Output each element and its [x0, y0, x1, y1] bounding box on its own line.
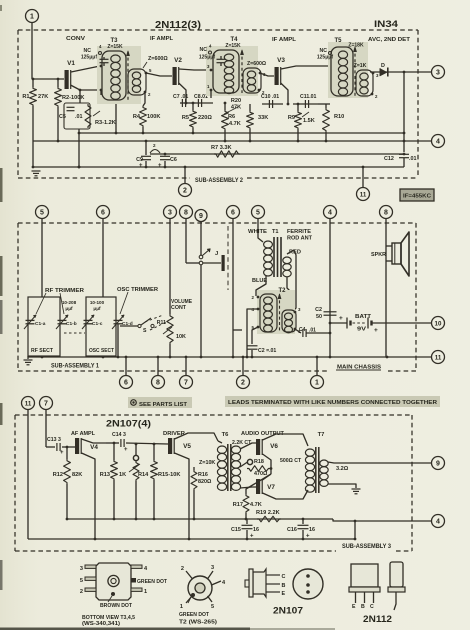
wire base V1: [33, 78, 64, 80]
svg-text:C1-c: C1-c: [92, 321, 103, 327]
svg-text:C2 =.01: C2 =.01: [258, 348, 276, 354]
pin 5 T2: [257, 326, 260, 329]
transformer T3 shading: [97, 46, 141, 104]
wire V3 emitter: [281, 83, 288, 104]
transformer T4 core: [241, 51, 243, 93]
transformer T5 primary: [331, 47, 353, 96]
svg-text:220Ω: 220Ω: [198, 115, 212, 121]
node 6 top: [97, 206, 110, 219]
svg-text:7: 7: [184, 379, 188, 386]
scan edge mark: [0, 5, 2, 11]
svg-text:33K: 33K: [258, 115, 268, 121]
svg-text:Z=15K: Z=15K: [225, 43, 241, 49]
svg-text:NC: NC: [200, 47, 208, 53]
svg-text:2: 2: [80, 589, 83, 595]
wire antenna right bottom: [287, 277, 292, 293]
IF can pin 3: [85, 565, 96, 568]
svg-text:C: C: [370, 604, 374, 610]
bus wire y167: [33, 166, 404, 168]
T2 socket pin 1: [186, 596, 192, 603]
transistor V7: [256, 479, 260, 494]
svg-text:3: 3: [168, 209, 172, 216]
svg-text:4.7K: 4.7K: [250, 502, 262, 508]
node 3 top: [164, 206, 177, 219]
svg-text:BLUE: BLUE: [252, 278, 268, 284]
svg-text:9V: 9V: [357, 327, 367, 333]
svg-text:11: 11: [25, 400, 32, 407]
svg-text:7: 7: [44, 400, 48, 407]
svg-text:Z=10K: Z=10K: [199, 460, 215, 466]
svg-text:11: 11: [435, 354, 442, 361]
svg-text:FERRITE: FERRITE: [287, 229, 312, 235]
IF can pin 1: [131, 588, 142, 591]
pin 1 T4: [210, 89, 213, 92]
svg-text:R20: R20: [231, 98, 241, 104]
node 11 lower terminal: [22, 397, 35, 410]
node 8b top: [380, 206, 393, 219]
svg-text:16: 16: [309, 527, 315, 533]
switch to pot dashed link: [145, 315, 163, 322]
svg-text:μμf: μμf: [93, 306, 101, 311]
svg-text:2: 2: [183, 187, 187, 194]
resistor R17 4.7K: [243, 494, 249, 513]
bus wire y133: [79, 132, 404, 134]
see parts list note: [128, 397, 192, 408]
gang coupling dashed link: [64, 332, 85, 334]
svg-text:T5: T5: [334, 38, 342, 44]
transformer T2 shading: [257, 290, 295, 334]
pin 3 T5 sec: [372, 72, 375, 75]
IF can brown dot: [111, 592, 115, 596]
svg-text:6: 6: [231, 209, 235, 216]
svg-text:4.7K: 4.7K: [229, 121, 241, 127]
svg-text:R2-100K: R2-100K: [62, 95, 84, 101]
IF can pin 2: [85, 588, 96, 591]
wire T6 sec to V7: [240, 487, 256, 488]
svg-text:1: 1: [315, 379, 319, 386]
svg-text:S: S: [143, 328, 147, 334]
svg-text:R19 2.2K: R19 2.2K: [256, 510, 280, 516]
svg-text:2: 2: [241, 379, 245, 386]
svg-text:+: +: [124, 447, 128, 453]
svg-text:5: 5: [80, 578, 83, 584]
sub-assembly 2 dashed enclosure: [18, 29, 418, 31]
pin 2 T4 sec: [258, 89, 261, 92]
pin 4 T2: [257, 308, 260, 311]
svg-text:RF SECT: RF SECT: [31, 348, 54, 354]
svg-text:IF AMPL: IF AMPL: [272, 37, 297, 43]
svg-text:82K: 82K: [72, 472, 82, 478]
svg-text:AVC, 2ND DET: AVC, 2ND DET: [368, 37, 411, 43]
svg-text:2N112(3): 2N112(3): [155, 19, 201, 31]
svg-text:3: 3: [436, 69, 440, 76]
transformer T3 core: [127, 52, 129, 100]
transistor V6: [256, 439, 260, 455]
capacitor C15 16: [246, 519, 248, 524]
resistor R15-10K: [153, 444, 155, 460]
node 4 top: [324, 206, 337, 219]
transformer T5 core: [354, 48, 356, 96]
svg-text:Z=600Ω: Z=600Ω: [247, 61, 266, 67]
ground sub-assembly 2: [32, 141, 34, 167]
pin 2 T3 sec: [144, 91, 147, 94]
svg-text:RF TRIMMER: RF TRIMMER: [45, 288, 84, 294]
svg-text:SPKR: SPKR: [371, 252, 386, 258]
svg-text:Z=1K: Z=1K: [354, 63, 367, 69]
svg-text:R16: R16: [198, 472, 208, 478]
svg-text:R7 3.3K: R7 3.3K: [211, 145, 232, 151]
transformer T2 core: [279, 295, 281, 331]
pin 1 T2: [294, 328, 297, 331]
node 5b top: [252, 206, 265, 219]
svg-text:470Ω: 470Ω: [254, 471, 268, 477]
variable capacitor C1-b: [58, 319, 67, 321]
wire T7 sec bottom: [328, 484, 356, 488]
transformer T2 primary: [260, 294, 277, 332]
svg-text:C5: C5: [59, 114, 66, 120]
switch S: [120, 325, 138, 327]
resistor R10: [325, 104, 327, 108]
node 1 bottom row: [316, 357, 318, 376]
node 4 terminal: [432, 135, 445, 148]
variable capacitor C1-d: [114, 319, 123, 321]
svg-text:J: J: [215, 251, 218, 257]
IF can pin 5: [85, 577, 96, 580]
svg-text:Z=15K: Z=15K: [107, 44, 123, 50]
svg-text:1: 1: [144, 589, 147, 595]
antenna T1 secondary coil: [283, 257, 291, 264]
transformer T2 secondary: [282, 310, 296, 332]
svg-text:1K: 1K: [119, 472, 126, 478]
variable capacitor C1-a: [26, 319, 35, 321]
IF can center hole: [108, 575, 119, 586]
potentiometer R14: [135, 444, 137, 455]
bus wire sub3 mid: [67, 518, 333, 520]
svg-text:2: 2: [153, 143, 156, 148]
svg-text:NC: NC: [320, 48, 328, 54]
svg-text:WHITE: WHITE: [248, 229, 268, 235]
transformer T4 secondary: [243, 68, 261, 93]
T2 socket pin 2: [186, 571, 193, 579]
wire node6b to T2: [233, 329, 242, 331]
svg-text:+: +: [339, 315, 343, 322]
svg-text:R17: R17: [233, 502, 243, 508]
svg-text:μμf: μμf: [65, 306, 73, 311]
svg-text:C2: C2: [315, 307, 322, 313]
svg-text:NC: NC: [84, 48, 92, 54]
transformer T3 primary: [102, 51, 126, 100]
variable capacitor C1-c: [84, 319, 93, 321]
svg-text:D: D: [381, 63, 385, 69]
wire T6 center tap: [240, 462, 248, 467]
ground T7: [352, 488, 361, 490]
capacitor C3 50 electrolytic: [329, 306, 331, 357]
wire T7 sec top to node 9: [328, 462, 432, 463]
resistor R13 1K: [113, 443, 115, 460]
wire to node 4: [333, 519, 432, 521]
svg-text:5: 5: [40, 209, 44, 216]
tuning gang RF section box: [28, 297, 60, 356]
node 1 terminal: [26, 10, 39, 23]
pin 3 T4: [210, 69, 213, 72]
wire V6 emitter: [263, 454, 272, 474]
svg-text:8: 8: [184, 209, 188, 216]
resistor R5 220: [192, 103, 194, 110]
pot circle R18: [247, 459, 252, 464]
svg-text:T2 (WS-265): T2 (WS-265): [179, 620, 217, 626]
svg-text:1: 1: [30, 13, 34, 20]
node 7 bottom row: [185, 357, 187, 376]
svg-text:125μμf: 125μμf: [317, 55, 333, 61]
node 3 terminal: [432, 66, 445, 79]
resistor R16 820: [193, 467, 195, 470]
svg-text:3: 3: [80, 566, 83, 572]
wire T3 pin1 feed down: [115, 90, 117, 133]
svg-text:R14: R14: [138, 472, 149, 478]
scan edge mark: [0, 403, 3, 425]
svg-text:T2: T2: [278, 288, 286, 294]
wire emitters to R17: [246, 474, 271, 494]
antenna T1 core: [273, 237, 275, 277]
svg-text:R13: R13: [100, 472, 110, 478]
svg-text:16: 16: [253, 527, 259, 533]
svg-text:SUB-ASSEMBLY 3: SUB-ASSEMBLY 3: [342, 544, 392, 550]
wire cap row right: [318, 103, 330, 105]
svg-text:.01: .01: [409, 156, 417, 162]
transformer T3 secondary: [128, 69, 146, 95]
capacitor C6 electrolytic: [164, 154, 166, 155]
node 9 top: [195, 210, 207, 222]
svg-text:CONV: CONV: [66, 36, 85, 42]
wire T6 sec to V6: [240, 443, 256, 449]
svg-text:1.5K: 1.5K: [303, 118, 315, 124]
svg-text:2N112: 2N112: [363, 614, 392, 625]
wire V4 collector: [82, 439, 107, 443]
transformer T7: [305, 449, 314, 456]
scan edge mark: [0, 560, 3, 590]
svg-text:Z=600Ω: Z=600Ω: [148, 56, 168, 62]
wire V7 collector: [263, 490, 309, 499]
svg-text:9: 9: [199, 213, 203, 220]
svg-text:AF AMPL: AF AMPL: [71, 431, 96, 437]
svg-text:C13 3: C13 3: [47, 437, 61, 443]
dashed chassis divider at jack: [227, 226, 229, 290]
transistor V5: [168, 438, 172, 454]
2N107 lead B: [266, 583, 280, 585]
svg-text:10: 10: [435, 320, 442, 327]
wire pin4 to bus: [247, 309, 258, 357]
svg-text:5: 5: [256, 209, 260, 216]
svg-text:27K: 27K: [38, 94, 48, 100]
svg-text:C14 3: C14 3: [112, 432, 126, 438]
2N107 side view body: [253, 569, 266, 597]
transformer T6: [217, 446, 226, 453]
svg-text:T1: T1: [272, 229, 279, 235]
svg-text:R4: R4: [133, 114, 141, 120]
svg-text:R10: R10: [334, 114, 344, 120]
svg-text:R11: R11: [157, 320, 166, 326]
wire avc vertical: [403, 71, 406, 74]
node 11 under sub-assembly 2: [362, 167, 364, 188]
svg-text:SUB-ASSEMBLY 1: SUB-ASSEMBLY 1: [51, 364, 100, 370]
bus wire y154: [150, 153, 404, 155]
bus wire sub3 bottom: [28, 538, 355, 540]
T2 socket bottom view: [188, 576, 212, 600]
bus wire main chassis: [28, 356, 387, 358]
svg-text:C1-a: C1-a: [35, 321, 46, 327]
wire R3 to bus: [78, 129, 80, 167]
svg-text:1: 1: [180, 604, 183, 610]
node 7 lower terminal: [40, 397, 53, 410]
resistor R12 82K: [66, 447, 68, 459]
wire volume top link: [232, 330, 234, 357]
resistor R9 1.5K: [297, 104, 299, 111]
IF can bottom view body: [96, 563, 131, 600]
T2 socket pin 5: [208, 596, 213, 602]
svg-text:820Ω: 820Ω: [198, 479, 212, 485]
wire V2 collector: [179, 69, 209, 70]
svg-text:GREEN DOT: GREEN DOT: [137, 579, 168, 585]
resistor R1 27K: [32, 79, 34, 87]
svg-text:2: 2: [181, 566, 184, 572]
svg-text:BATT: BATT: [355, 314, 372, 320]
svg-text:C6: C6: [170, 157, 177, 163]
2N112 lead C: [373, 592, 375, 603]
svg-text:V5: V5: [183, 443, 191, 450]
wire V4 emitter: [82, 453, 96, 539]
node 6b top: [227, 206, 240, 219]
capacitor C4 .01: [295, 329, 301, 333]
svg-text:C8.01: C8.01: [194, 94, 208, 100]
svg-text:R6: R6: [228, 114, 235, 120]
2N107 lead C: [266, 574, 280, 576]
wire pin5 down: [252, 327, 258, 344]
scan edge mark: [0, 168, 3, 202]
node 8 bottom row: [157, 357, 159, 376]
2N112 side lead: [394, 592, 396, 610]
svg-text:V6: V6: [270, 443, 278, 450]
scan bottom edge line faint: [250, 628, 335, 630]
2N107 bottom view circle: [293, 569, 323, 599]
2N107 lead E: [266, 591, 280, 593]
svg-text:+: +: [306, 534, 310, 540]
wire V1 collector: [71, 66, 100, 72]
node 5 top: [36, 206, 49, 219]
resistor R6 4.7K: [224, 103, 226, 110]
node 2 bottom row: [242, 357, 244, 376]
svg-text:6: 6: [101, 209, 105, 216]
svg-text:125μμf: 125μμf: [199, 55, 215, 61]
svg-text:+: +: [139, 163, 143, 169]
resistor R2-100K: [57, 79, 59, 87]
svg-text:E: E: [352, 604, 356, 610]
wire emitter to T3 pin1: [80, 89, 103, 91]
transformer T4 shading: [206, 46, 258, 96]
svg-text:C1-b: C1-b: [66, 321, 77, 327]
svg-text:R12: R12: [53, 472, 63, 478]
2N112 lead E: [355, 592, 357, 603]
pin 3 T4 sec: [259, 72, 262, 75]
svg-text:IF=455KC: IF=455KC: [403, 194, 431, 200]
leads terminated note: [225, 396, 440, 407]
svg-text:5: 5: [211, 604, 214, 610]
svg-text:10K: 10K: [176, 334, 186, 340]
svg-text:11: 11: [360, 191, 367, 198]
wire V5 collector: [175, 433, 219, 441]
transformer T4 primary: [213, 50, 239, 93]
transistor V4: [75, 438, 79, 454]
svg-text:E: E: [282, 591, 286, 597]
T2 socket pin 4: [212, 581, 222, 585]
resistor R8 33K: [249, 104, 251, 111]
svg-text:(WS-340,341): (WS-340,341): [82, 621, 120, 627]
wire V5 emitter: [175, 453, 190, 539]
svg-text:125μμf: 125μμf: [81, 55, 97, 61]
transformer T5 shading: [328, 42, 368, 98]
wire V3 collector: [281, 66, 330, 69]
svg-text:R15-10K: R15-10K: [158, 472, 180, 478]
svg-text:9: 9: [436, 460, 440, 467]
svg-text:R1: R1: [22, 94, 29, 100]
svg-text:Z=18K: Z=18K: [348, 43, 364, 49]
svg-text:10-208: 10-208: [62, 300, 77, 305]
svg-text:2N107(4): 2N107(4): [106, 419, 151, 430]
svg-text:C10 .01: C10 .01: [261, 94, 279, 100]
svg-text:ROD ANT: ROD ANT: [287, 236, 313, 242]
scan edge mark: [0, 256, 3, 296]
svg-text:50: 50: [316, 314, 322, 320]
svg-text:10-100: 10-100: [90, 300, 105, 305]
scan bottom edge line: [0, 628, 250, 630]
svg-text:R18: R18: [254, 459, 264, 465]
node 6 bottom row: [125, 357, 127, 376]
svg-text:V2: V2: [174, 57, 182, 64]
IF=455KC box: [400, 189, 434, 201]
2N112 lead B: [364, 592, 366, 603]
svg-text:V3: V3: [277, 57, 285, 64]
svg-text:6: 6: [124, 379, 128, 386]
capacitor C16 16: [302, 519, 304, 524]
svg-text:C12: C12: [384, 156, 394, 162]
node 10 terminal: [432, 317, 445, 330]
pin 1 T3: [100, 89, 103, 92]
node 4 lower terminal: [432, 515, 445, 528]
IF can pin 4: [131, 565, 142, 568]
svg-text:IF AMPL: IF AMPL: [150, 36, 174, 42]
pin 2 T2: [257, 296, 260, 299]
svg-text:C15: C15: [231, 527, 241, 533]
capacitor C2 .01 osc: [247, 345, 258, 347]
svg-text:IN34: IN34: [374, 19, 398, 29]
svg-text:R3-1.2K: R3-1.2K: [95, 120, 116, 126]
svg-text:B: B: [282, 583, 286, 589]
node 8 top: [180, 206, 193, 219]
wire V1 emitter: [71, 85, 81, 90]
wire red lead: [287, 250, 296, 310]
svg-text:C: C: [282, 574, 286, 580]
wire T6 top: [218, 441, 222, 443]
svg-text:+: +: [250, 534, 254, 540]
svg-text:C11.01: C11.01: [300, 94, 317, 100]
resistor R4 100K: [143, 93, 145, 106]
capacitor C5 .01 loop: [64, 103, 90, 129]
svg-text:4: 4: [436, 518, 440, 525]
svg-text:C16: C16: [287, 527, 297, 533]
svg-text:500Ω CT: 500Ω CT: [280, 458, 302, 464]
wire blue lead: [256, 276, 266, 296]
T2 socket pin 3: [208, 571, 214, 579]
wire T3 to V2 base: [146, 73, 172, 76]
